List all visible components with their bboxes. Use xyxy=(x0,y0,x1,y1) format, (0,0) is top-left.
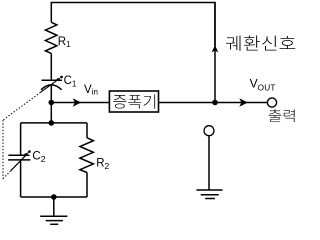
resistor R2 xyxy=(80,138,94,173)
capacitor C1 curved plate xyxy=(41,85,62,90)
arrowhead output xyxy=(239,98,248,107)
resistor R1 xyxy=(45,22,57,53)
output label 출력 xyxy=(269,109,295,122)
wire top horizontal xyxy=(51,3,215,47)
wire C2 branch upper xyxy=(20,123,22,155)
capacitor C2 arrow xyxy=(11,150,31,170)
feedback label 궤환신호 xyxy=(226,36,295,51)
wire R1 to C1 xyxy=(50,53,52,80)
wire ground stem left xyxy=(53,197,55,216)
arrowhead Vin xyxy=(73,98,82,107)
terminal circle ground xyxy=(204,126,214,136)
gang coupling dashed link C1-C2 xyxy=(3,92,41,178)
arrowhead feedback up xyxy=(212,45,219,52)
node C junction dot (feedback tap) xyxy=(212,100,218,106)
wire ground stem right xyxy=(208,136,210,190)
ground left xyxy=(40,216,67,224)
ground right xyxy=(196,190,222,199)
capacitor C1 arrow xyxy=(41,76,63,93)
terminal circle output xyxy=(267,98,276,107)
wire Vin xyxy=(51,102,109,104)
wire loop top xyxy=(21,122,87,124)
wire R2 branch upper xyxy=(86,123,88,138)
node A junction dot xyxy=(49,100,55,106)
capacitor C1 top plate xyxy=(42,79,63,81)
node D junction dot (ground) xyxy=(51,194,57,200)
amplifier block U1 xyxy=(109,91,158,112)
wire loop bottom xyxy=(21,196,87,198)
wire R2 branch lower xyxy=(86,173,88,198)
wire C2 branch lower xyxy=(20,160,22,197)
capacitor C2 bottom plate xyxy=(8,159,30,161)
wire C1 to node A xyxy=(50,85,52,123)
node B junction dot xyxy=(49,120,55,126)
wire feedback vertical xyxy=(214,3,216,103)
wire output xyxy=(215,102,267,104)
wire amp to junction xyxy=(159,102,216,104)
capacitor C2 top plate xyxy=(8,154,29,156)
amplifier label 증폭기 xyxy=(113,94,155,108)
